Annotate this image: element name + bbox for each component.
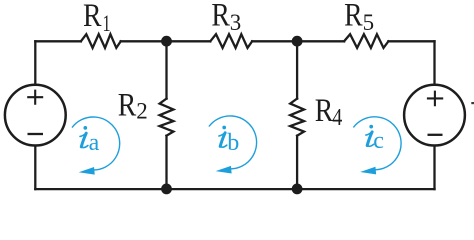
svg-text:3: 3 bbox=[230, 10, 242, 35]
label ic bbox=[366, 125, 374, 147]
svg-text:R: R bbox=[211, 0, 230, 33]
wire R1 to node A bbox=[121, 40, 211, 42]
resistor R2 bbox=[160, 99, 174, 136]
wire R4 to bottom node D bbox=[296, 136, 298, 189]
V1 plus sign bbox=[27, 90, 43, 105]
wire R3 to node B bbox=[252, 40, 344, 42]
wire R5 to top-right corner bbox=[388, 40, 434, 42]
svg-text:R: R bbox=[344, 0, 363, 33]
mesh current arrow ib arc bbox=[209, 116, 257, 169]
label ib bbox=[219, 126, 227, 148]
wire top-left segment bbox=[35, 40, 81, 42]
resistor R4 bbox=[290, 99, 304, 136]
wire node B to R4 bbox=[296, 41, 298, 98]
label ia bbox=[80, 126, 88, 148]
wire right source bottom lead bbox=[433, 145, 435, 189]
svg-text:2: 2 bbox=[136, 99, 148, 124]
wire left source top lead bbox=[34, 41, 36, 85]
svg-text:R: R bbox=[83, 0, 102, 34]
mesh current arrow ic arc bbox=[353, 117, 401, 170]
node C junction dot bbox=[161, 184, 172, 195]
mesh current arrow ib head bbox=[216, 166, 232, 174]
resistor R3 bbox=[210, 34, 252, 48]
svg-text:5: 5 bbox=[363, 10, 375, 35]
period after figure bbox=[471, 102, 474, 104]
mesh current arrow ia arc bbox=[72, 117, 120, 170]
wire right source top lead bbox=[433, 41, 435, 85]
node A junction dot bbox=[161, 36, 172, 47]
node D junction dot bbox=[292, 184, 303, 195]
svg-text:c: c bbox=[373, 128, 384, 154]
wire bottom rail bbox=[35, 188, 434, 190]
V2 plus sign bbox=[427, 91, 443, 107]
mesh current arrow ic head bbox=[360, 167, 376, 175]
svg-text:R: R bbox=[118, 86, 137, 123]
svg-text:1: 1 bbox=[103, 11, 111, 36]
V1 minus sign bbox=[28, 133, 44, 135]
wire R2 to bottom node C bbox=[165, 136, 167, 189]
svg-text:b: b bbox=[227, 130, 239, 156]
wire left source bottom lead bbox=[34, 145, 36, 189]
wire node A to R2 bbox=[165, 41, 167, 98]
svg-text:a: a bbox=[89, 130, 100, 156]
mesh current arrow ia head bbox=[79, 167, 95, 175]
voltage source V1 bbox=[5, 85, 66, 146]
node B junction dot bbox=[292, 36, 303, 47]
V2 minus sign bbox=[428, 134, 443, 136]
svg-text:R: R bbox=[315, 92, 334, 129]
voltage source V2 bbox=[404, 85, 465, 146]
svg-text:4: 4 bbox=[332, 103, 342, 130]
resistor R1 bbox=[81, 34, 121, 48]
resistor R5 bbox=[344, 34, 388, 48]
